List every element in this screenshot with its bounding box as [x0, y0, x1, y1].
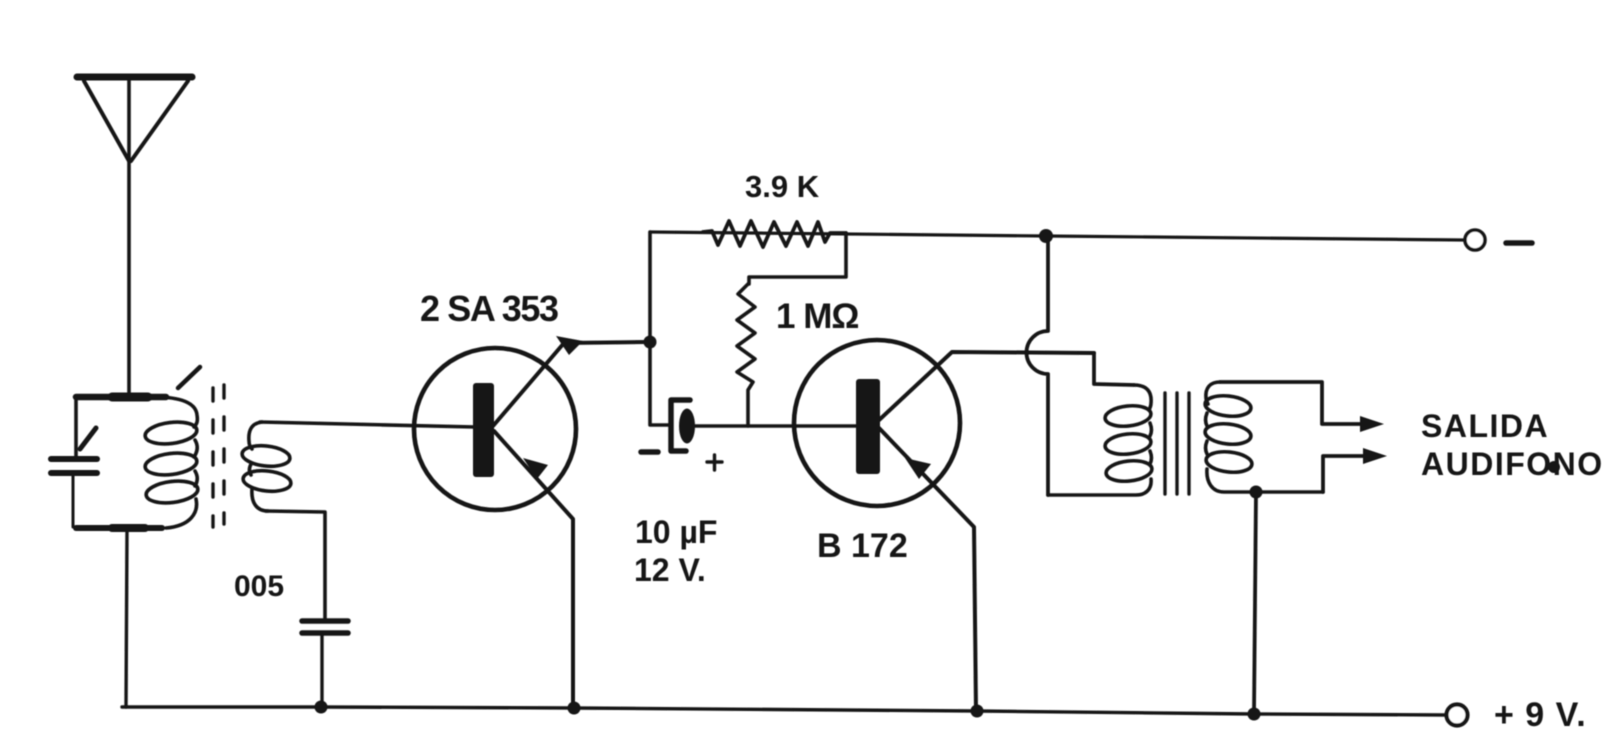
capacitor C2 005 — [302, 621, 348, 633]
junction dot T2 secondary bottom — [1250, 486, 1263, 499]
transformer T2 secondary coil — [1204, 382, 1323, 492]
wire: R2 branch from top rail — [749, 233, 846, 284]
wire: T2 tap down to rail — [1254, 492, 1256, 714]
svg-text:+ 9 V.: + 9 V. — [1494, 696, 1587, 730]
svg-text:005: 005 — [234, 570, 284, 603]
junction dot top rail to T2 — [1039, 229, 1053, 243]
top rail (minus) — [650, 232, 1464, 240]
wire: L1 secondary top to Q1 base — [260, 422, 475, 427]
wire: tuned circuit top bar — [76, 394, 166, 401]
transistor Q1 collector arrowhead — [556, 336, 583, 355]
junction dot — [315, 701, 328, 714]
capacitor C1 variable (plates) — [51, 459, 97, 473]
output arrow upper — [1360, 416, 1384, 432]
junction dot Q2 emitter at rail — [971, 705, 984, 718]
transistor Q2 emitter arrowhead — [905, 458, 931, 479]
scan artifact blob on AUDIFONO O — [1548, 461, 1560, 473]
terminal: +9V (bottom right) — [1447, 705, 1468, 726]
wire: down to bottom rail — [126, 531, 127, 707]
resistor R1 3.9K zigzag — [703, 221, 846, 247]
wire: below C1 — [72, 476, 75, 527]
wire: vertical branch x650 — [650, 232, 668, 425]
svg-text:B 172: B 172 — [817, 527, 908, 565]
wire: T2 secondary bottom to output — [1323, 456, 1371, 492]
svg-text:3.9 K: 3.9 K — [745, 169, 820, 204]
output arrow lower — [1363, 448, 1387, 464]
label minus sign — [1506, 240, 1532, 246]
transformer T2 core — [1165, 393, 1189, 494]
svg-text:12 V.: 12 V. — [634, 552, 706, 588]
svg-text:2 SA 353: 2 SA 353 — [420, 288, 558, 329]
label C3 plus sign — [707, 455, 722, 470]
transistor Q2 emitter line — [879, 428, 976, 711]
wire: C2 to bottom rail — [320, 636, 323, 707]
svg-text:AUDIFONO: AUDIFONO — [1421, 446, 1604, 482]
node: bottom bar center blob — [112, 524, 145, 532]
wire: L1 secondary bottom to C2 — [266, 511, 325, 619]
transformer T1 core (dashed) — [213, 385, 224, 527]
wire: Q2 base wire — [695, 424, 857, 428]
wire: T2 secondary top to output — [1220, 382, 1368, 424]
wire: tuned circuit bottom bar — [76, 525, 162, 531]
capacitor C3 left plate bracket — [671, 400, 690, 451]
transistor Q1 2SA353 circle — [414, 348, 576, 510]
arrow mark lower (variable indicator) — [80, 428, 96, 449]
label C3 minus sign — [641, 449, 658, 455]
terminal: minus (top right) — [1465, 230, 1485, 250]
transistor Q1 emitter arrowhead — [523, 458, 548, 479]
transistor Q2 collector line — [878, 352, 1094, 421]
junction dot T2 tap at rail — [1248, 708, 1261, 721]
arrow mark upper (variable indicator) — [178, 367, 200, 388]
transistor Q2 B172 circle — [794, 340, 960, 506]
svg-text:10 µF: 10 µF — [635, 514, 717, 550]
inductor L1 secondary coil — [241, 422, 292, 511]
wire: T2 primary left leg with hop — [1027, 236, 1049, 495]
wire: Q2 collector to T2 primary top — [1094, 353, 1134, 385]
svg-text:1 MΩ: 1 MΩ — [776, 297, 858, 336]
svg-text:SALIDA: SALIDA — [1421, 408, 1549, 444]
capacitor C3 right plate — [679, 409, 695, 444]
junction dot Q1 emitter at rail — [568, 702, 581, 715]
resistor R2 1M zigzag — [737, 284, 755, 426]
wire: tuned circuit left branch — [74, 397, 78, 456]
transistor Q2 base bar — [856, 379, 880, 474]
transistor Q1 collector line — [493, 342, 648, 426]
node: antenna junction — [112, 393, 148, 402]
transistor Q1 emitter line — [494, 431, 573, 708]
transformer T2 primary coil — [1048, 385, 1153, 495]
node A: junction dot collector/R1 branch — [644, 336, 657, 349]
transistor Q1 base bar — [473, 383, 494, 477]
antenna — [77, 77, 192, 396]
bottom rail +9V — [122, 707, 1446, 715]
inductor L1 primary coil — [144, 397, 199, 528]
